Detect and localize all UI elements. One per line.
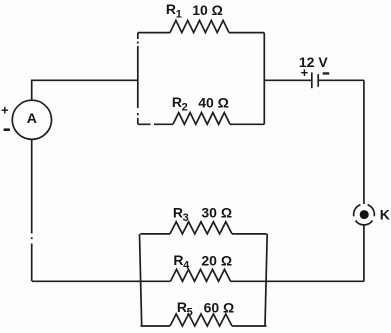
svg-text:R: R — [177, 299, 187, 315]
svg-text:3: 3 — [183, 212, 189, 224]
svg-text:R: R — [166, 1, 176, 17]
svg-text:A: A — [27, 110, 37, 126]
svg-text:30 Ω: 30 Ω — [201, 205, 232, 221]
svg-text:R: R — [172, 94, 182, 110]
svg-text:R: R — [173, 252, 183, 268]
svg-text:K: K — [380, 206, 390, 222]
bottom parallel box left edge — [140, 234, 142, 326]
top parallel box right edge — [263, 33, 265, 125]
wire key to bottom corner — [363, 225, 365, 281]
svg-text:+: + — [301, 65, 309, 80]
svg-text:R: R — [173, 204, 183, 220]
label R2 40 ohm — [172, 94, 229, 114]
battery B1 12V — [312, 72, 318, 88]
resistor R3 — [141, 222, 267, 234]
top parallel box left edge (dash-dot) — [137, 33, 139, 125]
resistor R5 — [141, 314, 267, 326]
label R3 30 ohm — [173, 204, 232, 224]
left wire ammeter bottom to corner (with dash break) — [31, 140, 33, 282]
wire ammeter top to node junction — [32, 80, 138, 100]
svg-text:+: + — [1, 102, 9, 117]
svg-text:10 Ω: 10 Ω — [192, 2, 223, 18]
main bottom wire with resistor R4 — [32, 269, 364, 281]
wire right side down to key — [363, 80, 365, 204]
label R4 20 ohm — [173, 252, 232, 272]
resistor R1 — [138, 20, 264, 32]
svg-text:1: 1 — [176, 9, 182, 21]
svg-text:4: 4 — [183, 260, 190, 272]
resistor R2 — [138, 113, 264, 125]
plug key K — [354, 205, 375, 225]
wire battery to right side — [319, 79, 364, 81]
ammeter minus label — [4, 128, 10, 131]
wire box to battery — [264, 79, 311, 81]
svg-text:5: 5 — [187, 307, 193, 319]
ammeter A1 — [12, 100, 51, 139]
svg-text:20 Ω: 20 Ω — [201, 253, 232, 269]
svg-text:60 Ω: 60 Ω — [204, 299, 235, 315]
label R1 10 ohm — [166, 1, 223, 21]
label R5 60 ohm — [177, 299, 234, 319]
svg-text:2: 2 — [182, 102, 188, 114]
svg-text:40 Ω: 40 Ω — [198, 95, 229, 111]
battery minus label — [323, 72, 330, 74]
bottom parallel box right edge — [265, 234, 267, 326]
